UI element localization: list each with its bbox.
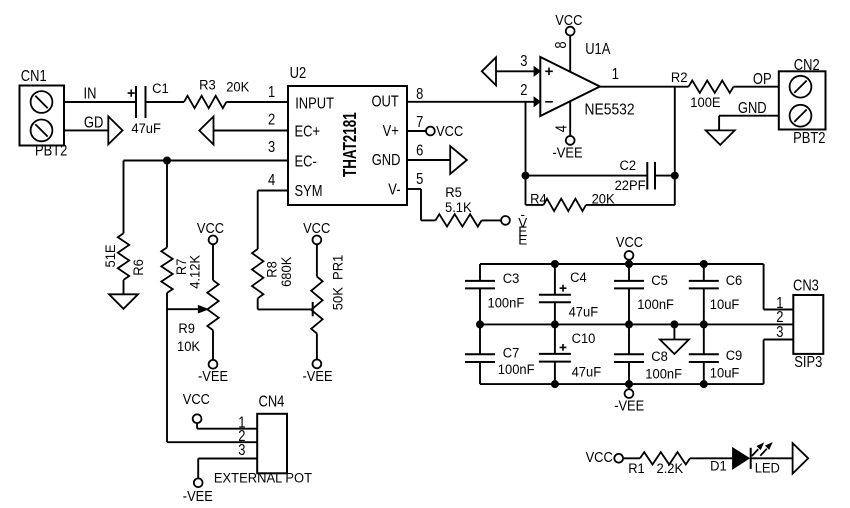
svg-text:10K: 10K <box>177 339 200 354</box>
wire bottom rail to CN3 pin 3 <box>764 340 794 385</box>
wire GND net to CN2 <box>719 116 779 131</box>
svg-text:OUT: OUT <box>371 94 399 111</box>
connector CN3 body (SIP3) <box>793 295 823 354</box>
svg-text:-VEE: -VEE <box>183 488 213 504</box>
wire VCC to R1 <box>623 457 640 459</box>
svg-text:CN4: CN4 <box>259 394 285 411</box>
svg-text:-VEE: -VEE <box>303 368 333 384</box>
svg-text:100nF: 100nF <box>498 362 535 377</box>
resistor R4 20K <box>544 199 587 211</box>
svg-text:R3: R3 <box>199 77 216 92</box>
resistor R7 4.12K (vertical) and wire down to CN4 pin 2 <box>161 161 257 443</box>
power VCC at LED row <box>586 449 624 465</box>
svg-text:VCC: VCC <box>436 123 463 139</box>
junction top rail at VCC/C5 <box>625 260 633 268</box>
resistor R5 5.1K <box>436 214 482 226</box>
plus mark in op-amp <box>545 68 553 76</box>
wire port to op-amp pin 3 <box>496 70 540 72</box>
wire VCC to CN4 pin 1 <box>197 428 257 430</box>
wire op-amp output to R2 <box>600 86 689 88</box>
power -VEE at CN4 pin 3 <box>183 478 213 504</box>
svg-text:C6: C6 <box>726 273 743 288</box>
svg-text:100nF: 100nF <box>637 297 674 312</box>
svg-text:IN: IN <box>84 86 97 103</box>
port arrow at U2 EC+ (pin 2) <box>199 117 213 145</box>
wire R4 to right vertical <box>586 87 675 205</box>
wire EC+ port to U2 pin 2 <box>214 130 289 132</box>
wiper wire R8 to PR1 <box>258 308 313 310</box>
junction on EC- wire (R7 tap) <box>163 157 171 165</box>
port arrow after LED <box>793 443 809 474</box>
LED emission arrows <box>752 443 772 456</box>
svg-text:47uF: 47uF <box>572 364 602 379</box>
capacitor C4 47uF (polarized) <box>539 264 571 324</box>
capacitor C6 10uF <box>689 264 719 324</box>
svg-text:100nF: 100nF <box>488 295 525 310</box>
wire R1 to D1 <box>690 457 732 459</box>
plus mark C4 <box>560 285 567 292</box>
power VCC at U2 pin 7 <box>426 123 463 139</box>
svg-text:47uF: 47uF <box>569 304 599 319</box>
capacitor C8 100nF <box>614 324 644 384</box>
svg-text:U1A: U1A <box>585 41 611 58</box>
svg-text:R4: R4 <box>530 191 547 206</box>
junction top rail at C4 <box>551 260 559 268</box>
svg-text:C3: C3 <box>503 271 520 286</box>
capacitor C10 47uF (polarized) <box>539 324 571 384</box>
resistor R1 2.2K <box>640 452 690 464</box>
connector CN4 body <box>257 414 287 474</box>
wire U2 pin 6 to ground port <box>407 159 450 161</box>
svg-text:7: 7 <box>416 114 423 131</box>
svg-text:C4: C4 <box>570 270 587 285</box>
LED D1 (diode symbol) <box>733 448 751 469</box>
svg-text:CN1: CN1 <box>21 68 47 85</box>
wire op-amp pin 4 to -VEE <box>569 101 571 136</box>
wire SYM (U2 pin 4) to R8 <box>258 191 288 250</box>
plus mark C1 <box>128 90 135 97</box>
ground symbol below CN2 GND wire <box>706 130 735 145</box>
wire -VEE rail (bottom) <box>480 383 764 385</box>
svg-text:C1: C1 <box>152 81 169 96</box>
op-amp U1A NE5532 body <box>540 57 600 116</box>
wire CN4 pin 3 to -VEE <box>198 459 257 479</box>
power -VEE below R9 <box>198 360 228 384</box>
svg-text:VCC: VCC <box>303 221 330 237</box>
svg-text:100E: 100E <box>690 94 720 109</box>
svg-text:8: 8 <box>416 86 423 103</box>
power -VEE at R5 (stacked label) <box>501 207 527 248</box>
wire feedback vertical at op-amp input <box>525 102 527 205</box>
svg-text:U2: U2 <box>290 65 307 82</box>
junction bottom rail at C9 <box>700 380 708 388</box>
svg-text:GND: GND <box>738 100 767 117</box>
svg-text:OP: OP <box>753 71 772 88</box>
wire R5 to -VEE <box>482 219 502 221</box>
svg-text:22PF: 22PF <box>615 178 646 193</box>
potentiometer R9 10K (vertical) <box>207 244 218 359</box>
resistor R6 51E (vertical) <box>118 161 129 295</box>
wire OUT (U2 pin 8 to op-amp inverting input) <box>407 101 540 103</box>
svg-text:6: 6 <box>416 142 423 159</box>
junction mid rail at C4/C10 column <box>551 320 559 328</box>
svg-text:-VEE: -VEE <box>198 368 228 384</box>
svg-text:C2: C2 <box>620 158 637 173</box>
svg-text:C8: C8 <box>651 349 668 364</box>
svg-text:C7: C7 <box>503 345 520 360</box>
svg-text:50K PR1: 50K PR1 <box>330 255 345 310</box>
wire R2 to CN2 (net OP) <box>734 86 779 88</box>
power VCC above decoupling rail <box>616 234 643 264</box>
resistor R2 100E <box>689 81 734 93</box>
wiper T-bar of PR1 (preset) <box>312 302 314 316</box>
power -VEE below decoupling rail <box>614 384 644 414</box>
connector CN1 body (PBT2 screw terminal) <box>20 86 65 146</box>
ground symbol below R6 <box>109 294 138 309</box>
svg-text:E: E <box>518 232 527 247</box>
wire VCC rail (top) <box>480 263 764 265</box>
wire IN (CN1 pin to C1) <box>64 101 136 103</box>
svg-text:47uF: 47uF <box>131 121 161 136</box>
svg-text:5.1K: 5.1K <box>445 200 472 215</box>
svg-text:GND: GND <box>372 152 401 169</box>
port arrow at U2 GND pin 6 <box>450 146 467 174</box>
svg-text:V+: V+ <box>383 123 399 140</box>
svg-text:VCC: VCC <box>586 449 613 465</box>
svg-text:R6: R6 <box>131 259 146 276</box>
capacitor C9 10uF <box>689 324 719 384</box>
junction top rail at C6 <box>700 260 708 268</box>
svg-text:2: 2 <box>520 82 527 99</box>
power VCC above PR1 <box>303 221 330 245</box>
svg-text:R9: R9 <box>178 321 195 336</box>
svg-text:3: 3 <box>520 53 527 70</box>
svg-text:CN3: CN3 <box>793 277 819 294</box>
svg-text:V-: V- <box>388 181 400 198</box>
svg-text:THAT2181: THAT2181 <box>339 112 361 177</box>
junction bottom rail at C10 <box>551 380 559 388</box>
wire EC- net (corner to U2 pin 3) <box>124 160 289 162</box>
resistor R8 680K (vertical) <box>252 249 263 309</box>
svg-text:3: 3 <box>268 139 275 156</box>
wiper wire R9 to R7 line <box>167 308 200 310</box>
svg-text:1: 1 <box>612 66 619 83</box>
junction mid rail at C3/C7 column <box>476 320 484 328</box>
svg-text:20K: 20K <box>226 79 249 94</box>
resistor R3 20K <box>184 96 226 108</box>
junction mid rail at C6/C9 column <box>700 320 708 328</box>
power VCC at CN4 pin 1 <box>183 391 210 429</box>
svg-text:1: 1 <box>268 84 275 101</box>
wire U2 pin 7 to VCC <box>407 130 426 132</box>
junction bottom rail at -VEE/C8 <box>625 380 633 388</box>
wire top rail to CN3 pin 1 <box>764 264 794 310</box>
svg-text:5: 5 <box>416 171 423 188</box>
svg-text:VCC: VCC <box>197 221 224 237</box>
svg-text:2.2K: 2.2K <box>657 461 684 476</box>
capacitor C2 22PF <box>647 162 655 190</box>
wire op-amp pin 8 to VCC <box>569 36 571 72</box>
svg-text:VCC: VCC <box>616 234 643 250</box>
svg-text:GD: GD <box>84 114 103 131</box>
junction C2 left <box>522 172 530 180</box>
input arrow at op-amp pin 2 <box>534 97 540 106</box>
wire to C2 left plate <box>526 175 648 177</box>
wire R3 to U2 pin 1 <box>226 101 288 103</box>
svg-text:4: 4 <box>268 172 275 189</box>
svg-text:3: 3 <box>776 324 783 341</box>
svg-text:51E: 51E <box>103 244 118 267</box>
connector CN2 body (PBT2 screw terminal) <box>779 71 826 129</box>
svg-text:D1: D1 <box>710 458 727 473</box>
power VCC above R9 <box>197 221 224 245</box>
svg-text:PBT2: PBT2 <box>793 130 825 147</box>
svg-text:10uF: 10uF <box>710 297 740 312</box>
power -VEE below PR1 <box>303 360 333 385</box>
svg-text:4.12K: 4.12K <box>187 255 202 289</box>
input arrow at op-amp pin 3 <box>534 67 540 76</box>
svg-text:EXTERNAL POT: EXTERNAL POT <box>214 470 312 485</box>
svg-text:INPUT: INPUT <box>295 95 334 112</box>
potentiometer PR1 50K (vertical) <box>311 244 322 359</box>
svg-text:R1: R1 <box>628 461 645 476</box>
svg-text:PBT2: PBT2 <box>35 143 67 160</box>
svg-text:100nF: 100nF <box>645 366 682 381</box>
svg-text:CN2: CN2 <box>794 57 820 74</box>
svg-text:SYM: SYM <box>295 183 323 200</box>
port arrow GD (ground port) <box>108 116 122 144</box>
wire GD (CN1 pin to port) <box>64 129 108 131</box>
svg-text:2: 2 <box>268 111 275 128</box>
junction mid rail at ground arrow <box>670 320 678 328</box>
svg-text:3: 3 <box>238 442 245 459</box>
svg-text:LED: LED <box>755 460 781 475</box>
ground symbol below mid rail <box>673 324 675 339</box>
svg-text:EC+: EC+ <box>295 124 321 141</box>
svg-text:-VEE: -VEE <box>553 145 583 161</box>
minus mark in op-amp <box>545 101 553 103</box>
svg-text:R5: R5 <box>445 185 462 200</box>
wire D1 to port <box>751 457 792 459</box>
svg-text:NE5532: NE5532 <box>585 102 635 119</box>
capacitor C5 100nF <box>614 264 644 324</box>
wire C2 right plate to output node <box>655 175 675 177</box>
svg-text:8: 8 <box>553 41 570 48</box>
svg-text:10uF: 10uF <box>710 365 740 380</box>
capacitor C3 100nF <box>465 264 495 324</box>
wire C1 to R3 <box>146 101 185 103</box>
capacitor C1 47uF (polarized) <box>136 86 146 118</box>
wire U2 pin 5 to R5 <box>407 189 436 220</box>
junction C2 right <box>671 172 679 180</box>
IC U2 THAT2181 body <box>288 86 407 205</box>
svg-text:R2: R2 <box>671 70 688 85</box>
svg-text:C5: C5 <box>651 273 668 288</box>
wire mid GND rail <box>480 323 793 325</box>
wiper arrow of R9 <box>198 306 207 313</box>
svg-text:-VEE: -VEE <box>614 398 644 414</box>
power VCC above op-amp <box>555 13 582 36</box>
wire R4 loop bottom <box>526 204 544 206</box>
svg-text:R8: R8 <box>264 261 279 278</box>
svg-text:SIP3: SIP3 <box>794 354 822 371</box>
svg-text:4: 4 <box>554 125 571 132</box>
svg-text:C9: C9 <box>726 348 743 363</box>
svg-text:C10: C10 <box>572 331 596 346</box>
plus mark C10 <box>560 344 567 351</box>
svg-text:EC-: EC- <box>295 154 318 171</box>
svg-text:VCC: VCC <box>183 391 210 407</box>
port arrow at op-amp pin 3 <box>482 57 496 85</box>
svg-text:680K: 680K <box>279 257 294 287</box>
power -VEE below op-amp <box>553 136 583 161</box>
capacitor C7 100nF <box>465 324 495 384</box>
junction mid rail at C5/C8 column <box>625 320 633 328</box>
